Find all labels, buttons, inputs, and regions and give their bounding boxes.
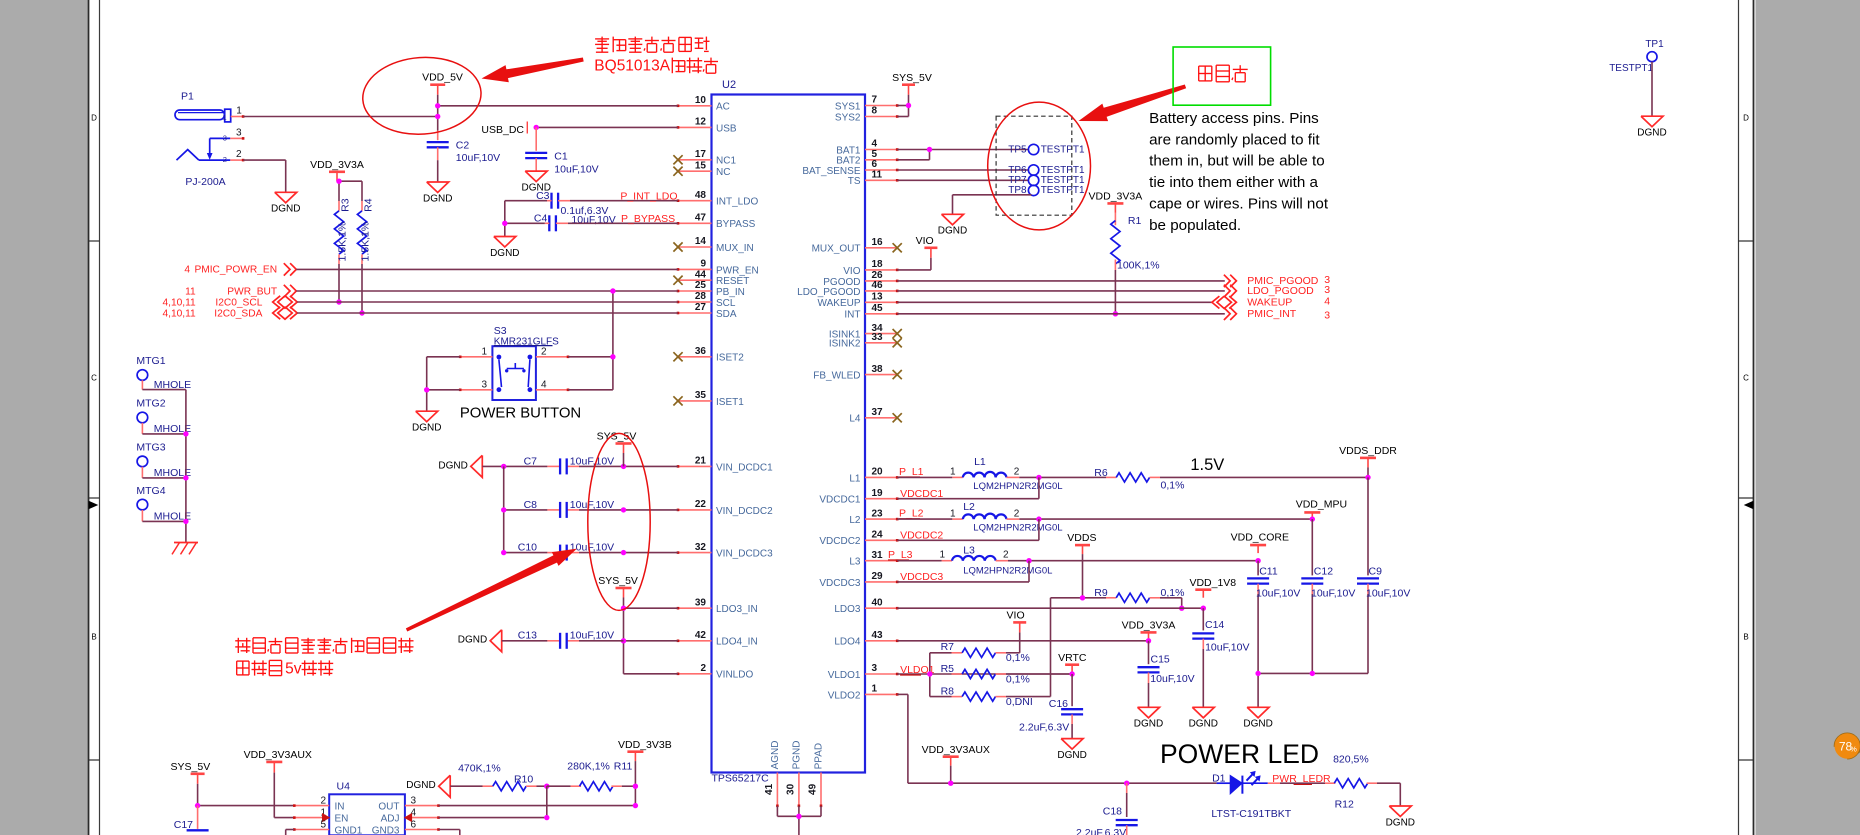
svg-text:12: 12 xyxy=(695,117,707,128)
svg-text:C1: C1 xyxy=(554,150,568,162)
ground DGND at cap bus xyxy=(1243,707,1272,729)
U4 pin 5 GND1 xyxy=(293,820,363,835)
ground DGND at C15 xyxy=(1134,707,1163,729)
U2 pin 32 VIN_DCDC3 xyxy=(677,542,773,560)
svg-text:45: 45 xyxy=(872,303,884,314)
svg-text:10uF,10V: 10uF,10V xyxy=(456,152,500,164)
svg-text:VINLDO: VINLDO xyxy=(716,670,753,681)
svg-text:DGND: DGND xyxy=(406,780,435,791)
svg-text:cape or wires. Pins will not: cape or wires. Pins will not xyxy=(1149,196,1329,213)
svg-text:MUX_OUT: MUX_OUT xyxy=(812,244,861,255)
wire TP8 to ground xyxy=(953,195,1032,215)
svg-text:ISET2: ISET2 xyxy=(716,353,744,364)
annotation green box xyxy=(1173,47,1271,105)
capacitor C11 xyxy=(1247,561,1300,674)
P1 pin 2 stub xyxy=(230,149,244,161)
svg-text:Battery access pins. Pins: Battery access pins. Pins xyxy=(1149,110,1319,127)
wire R7 R5 R8 left leg xyxy=(930,653,952,697)
U2 pin 42 LDO4_IN xyxy=(677,630,758,648)
U2 pin 39 LDO3_IN xyxy=(677,597,758,615)
net label VDCDC3 xyxy=(900,571,943,583)
resistor R9 xyxy=(1094,587,1184,602)
svg-text:1: 1 xyxy=(950,467,956,478)
U2 pin 2 VINLDO xyxy=(677,663,754,681)
svg-text:10uF,10V: 10uF,10V xyxy=(570,499,614,511)
svg-text:I2C0_SDA: I2C0_SDA xyxy=(214,309,262,320)
power VIO at MUX xyxy=(916,235,938,258)
U2 pin 14 MUX_IN xyxy=(673,236,753,254)
net label P_INT_LDO xyxy=(620,191,677,203)
U2 pin 18 VIO xyxy=(843,259,898,277)
svg-text:NC1: NC1 xyxy=(716,156,736,167)
svg-text:820,5%: 820,5% xyxy=(1333,754,1369,766)
junction VDD_CORE xyxy=(1255,558,1260,563)
svg-text:49: 49 xyxy=(808,783,819,795)
svg-text:TESTPT1: TESTPT1 xyxy=(1041,145,1085,156)
svg-text:10uF,10V: 10uF,10V xyxy=(570,542,614,554)
junction L1 out xyxy=(1036,475,1041,480)
net label P_L2 xyxy=(899,508,924,520)
test point TP1 xyxy=(1609,39,1664,74)
svg-text:20: 20 xyxy=(872,467,884,478)
svg-text:2: 2 xyxy=(541,346,547,357)
inductor L2 xyxy=(950,501,1063,534)
zoom badge 78 percent xyxy=(1835,733,1860,758)
switch S3 KMR231GLFS xyxy=(492,325,559,400)
svg-text:17: 17 xyxy=(695,149,707,160)
svg-text:%: % xyxy=(1850,745,1857,754)
svg-text:0,1%: 0,1% xyxy=(1161,480,1185,492)
junction C7 left xyxy=(501,464,506,469)
svg-text:P_L3: P_L3 xyxy=(888,549,913,561)
svg-text:SYS2: SYS2 xyxy=(835,112,861,123)
svg-text:VDCDC3: VDCDC3 xyxy=(900,571,943,583)
svg-text:DGND: DGND xyxy=(1057,750,1086,761)
svg-text:TP1: TP1 xyxy=(1645,39,1664,50)
svg-text:SYS_5V: SYS_5V xyxy=(597,431,637,443)
wire P1 to VDD_5V xyxy=(243,116,438,118)
wire SYS_5V cap column xyxy=(623,453,625,466)
svg-text:POWER LED: POWER LED xyxy=(1160,739,1319,769)
svg-text:R4: R4 xyxy=(363,198,375,212)
svg-text:R11: R11 xyxy=(614,761,633,773)
svg-text:DGND: DGND xyxy=(938,226,967,237)
wire R9 net xyxy=(1051,598,1182,608)
svg-text:280K,1%: 280K,1% xyxy=(567,761,610,773)
wire C10 row xyxy=(504,552,678,554)
junction L3 out xyxy=(1026,558,1031,563)
wire C2 to ground xyxy=(437,147,439,182)
sheet center markers xyxy=(89,502,1753,509)
svg-text:DGND: DGND xyxy=(490,248,519,259)
svg-text:PJ-200A: PJ-200A xyxy=(185,176,225,188)
svg-text:13: 13 xyxy=(872,292,884,303)
junction C4 ground xyxy=(502,221,507,226)
capacitor C2 xyxy=(427,140,500,165)
svg-text:11: 11 xyxy=(872,170,883,181)
power SYS_5V at U4 xyxy=(171,761,211,784)
junction S3 ground leg xyxy=(424,387,429,392)
U2 pin 24 VDCDC2 xyxy=(819,530,898,548)
wire C7 row xyxy=(482,465,678,467)
svg-text:2.2uF,6.3V: 2.2uF,6.3V xyxy=(1019,721,1069,733)
wire INT_LDO net xyxy=(505,200,678,202)
svg-text:3: 3 xyxy=(223,134,227,143)
svg-text:VIN_DCDC2: VIN_DCDC2 xyxy=(716,506,773,517)
svg-text:L1: L1 xyxy=(849,473,861,484)
U2 pin 13 WAKEUP xyxy=(818,292,899,310)
svg-text:30: 30 xyxy=(785,783,796,795)
svg-text:SYS_5V: SYS_5V xyxy=(892,72,932,84)
U2 pin 27 SDA xyxy=(677,302,737,320)
svg-text:1: 1 xyxy=(236,106,242,117)
junction OUT VDD_3V3B xyxy=(633,803,638,808)
svg-text:SYS_5V: SYS_5V xyxy=(598,575,638,587)
svg-text:4: 4 xyxy=(1324,296,1330,308)
junction MTG4 xyxy=(183,519,188,524)
mounting hole MTG4 xyxy=(136,485,191,523)
svg-text:MTG4: MTG4 xyxy=(136,485,165,497)
svg-text:LQM2HPN2R2MG0L: LQM2HPN2R2MG0L xyxy=(973,481,1062,492)
svg-text:23: 23 xyxy=(872,508,884,519)
offpage LDO_PGOOD xyxy=(1224,284,1330,297)
wire LDO3 net xyxy=(897,607,1203,609)
svg-text:R5: R5 xyxy=(941,663,955,675)
annotation ellipse battery xyxy=(988,102,1091,230)
svg-text:0,1%: 0,1% xyxy=(1006,652,1030,664)
junction VDDS_DDR xyxy=(1365,475,1370,480)
resistor R6 xyxy=(1094,467,1184,492)
svg-text:U2: U2 xyxy=(722,79,736,91)
mounting hole MTG2 xyxy=(136,398,191,435)
wire U4 GND1 leg xyxy=(286,830,295,835)
svg-text:PPAD: PPAD xyxy=(814,743,825,770)
wire L1 output xyxy=(897,476,1094,478)
wire R7 to VIO xyxy=(1006,632,1020,652)
capacitor C15 xyxy=(1138,641,1195,708)
capacitor C7 xyxy=(524,455,615,474)
svg-text:R7: R7 xyxy=(941,641,955,653)
junction MTG2 xyxy=(183,431,188,436)
junction R10 R11 xyxy=(544,784,549,789)
junction R11 VDD_3V3B xyxy=(633,784,638,789)
junction VDD_MPU xyxy=(1310,516,1315,521)
wire BAT1 to TP5 xyxy=(897,149,1028,151)
junction VDD_1V8 LDO3 xyxy=(1201,606,1206,611)
svg-text:AGND: AGND xyxy=(770,740,781,769)
power SYS_5V caps top xyxy=(597,431,637,453)
ground DGND at P1 xyxy=(271,192,300,214)
svg-text:21: 21 xyxy=(695,456,707,467)
junction PGND bus xyxy=(796,814,801,819)
annotation arrow to VDD_5V xyxy=(483,58,583,82)
power VDD_CORE xyxy=(1231,532,1289,553)
ground DGND at C3 C4 xyxy=(490,237,519,259)
ground DGND at C14 xyxy=(1189,707,1218,729)
wire R12 to ground xyxy=(1377,783,1400,806)
wire PMIC_POWR_EN net xyxy=(296,268,678,270)
S3 pin 4 xyxy=(536,379,569,391)
wire S3 left leg xyxy=(427,357,461,411)
svg-text:VIO: VIO xyxy=(1007,610,1025,622)
svg-text:P_L1: P_L1 xyxy=(899,466,924,478)
svg-text:5v: 5v xyxy=(285,660,302,677)
capacitor C16 xyxy=(1019,674,1083,739)
svg-text:LQM2HPN2R2MG0L: LQM2HPN2R2MG0L xyxy=(973,523,1062,534)
wire VLDO2 down xyxy=(897,694,908,783)
svg-text:TESTPT1: TESTPT1 xyxy=(1041,185,1085,196)
U2 pin 15 NC xyxy=(673,160,730,178)
svg-text:WAKEUP: WAKEUP xyxy=(1247,296,1292,308)
svg-text:10uF,10V: 10uF,10V xyxy=(571,214,615,226)
U2 pin 9 PWR_EN xyxy=(677,259,759,277)
ground DGND left at C13 xyxy=(458,630,502,652)
annotation chinese jiedianchi xyxy=(1199,65,1248,82)
capacitor C18 xyxy=(1076,783,1138,835)
svg-text:VDD_3V3A: VDD_3V3A xyxy=(310,159,364,171)
svg-text:38: 38 xyxy=(872,364,884,375)
svg-text:3: 3 xyxy=(236,127,242,138)
ground earth at MTG xyxy=(172,543,198,555)
U2 pin 5 BAT2 xyxy=(836,149,898,167)
svg-text:DGND: DGND xyxy=(412,423,441,434)
junction VDDS R9 xyxy=(1080,595,1085,600)
svg-text:VDCDC3: VDCDC3 xyxy=(819,578,861,589)
junction VDD_3V3A LDO4 xyxy=(1146,638,1151,643)
wire VIO to pin18 xyxy=(897,258,931,270)
svg-text:L2: L2 xyxy=(963,501,975,513)
U4 pin 6 GND3 xyxy=(372,820,440,835)
svg-text:SCL: SCL xyxy=(716,298,736,309)
wire VDDS stem xyxy=(1082,554,1084,598)
label 1.5V xyxy=(1190,456,1224,474)
svg-text:VIN_DCDC3: VIN_DCDC3 xyxy=(716,549,773,560)
svg-text:INT_LDO: INT_LDO xyxy=(716,197,758,208)
ground DGND at R12 xyxy=(1386,806,1415,828)
svg-text:10uF,10V: 10uF,10V xyxy=(1256,587,1300,599)
svg-text:L3: L3 xyxy=(963,544,975,556)
wire U4 OUT net xyxy=(439,805,636,807)
svg-text:IN: IN xyxy=(335,802,345,813)
svg-text:14: 14 xyxy=(695,236,707,247)
wire VDD_3V3A to R3 R4 xyxy=(337,181,362,201)
svg-text:4: 4 xyxy=(541,379,547,390)
junction VDD_3V3AUX rail xyxy=(948,781,953,786)
svg-text:D: D xyxy=(91,114,97,123)
ground DGND left at R10 xyxy=(406,775,450,797)
U2 pin 48 INT_LDO xyxy=(677,190,759,208)
U4 pin 1 EN xyxy=(293,808,348,825)
svg-text:3: 3 xyxy=(411,796,417,807)
svg-text:42: 42 xyxy=(695,630,707,641)
wire LDO4 net xyxy=(897,640,1148,642)
svg-text:1: 1 xyxy=(223,113,227,122)
svg-text:I2C0_SCL: I2C0_SCL xyxy=(215,298,262,309)
U2 pin 6 BAT_SENSE xyxy=(802,159,898,177)
wire R1 to INT xyxy=(1114,270,1116,314)
value labels C3 C4 xyxy=(561,205,616,226)
wire C13 row xyxy=(502,640,624,642)
power VDD_5V xyxy=(422,71,463,94)
capacitor C10 xyxy=(518,542,614,561)
capacitor C3 xyxy=(536,190,558,209)
wire L2 output xyxy=(897,518,1312,520)
resistor R7 xyxy=(941,641,1030,664)
P1 pin 3 stub xyxy=(230,127,244,139)
net label PWR_LEDR xyxy=(1272,773,1331,785)
annotation arrow to C10 xyxy=(407,549,576,631)
capacitor C17 xyxy=(174,819,209,835)
annotation chinese line1 xyxy=(595,37,709,53)
ground DGND at TP1 xyxy=(1637,116,1666,138)
svg-text:D: D xyxy=(1743,114,1749,123)
svg-text:3: 3 xyxy=(481,379,487,390)
wire C1 to ground xyxy=(535,158,537,171)
junction VRTC VLDO1 xyxy=(1069,671,1074,676)
ground DGND at C2 xyxy=(423,182,452,204)
svg-text:PMIC_INT: PMIC_INT xyxy=(1247,308,1297,320)
svg-text:C11: C11 xyxy=(1259,566,1278,578)
U2 pin 22 VIN_DCDC2 xyxy=(677,499,773,517)
junction C7 right xyxy=(621,464,626,469)
svg-text:47: 47 xyxy=(695,213,707,224)
annotation arrow battery xyxy=(1080,85,1186,121)
wire power led rail xyxy=(908,782,1217,784)
annotation chinese line4 xyxy=(237,660,334,677)
annotation ellipse SYS_5V xyxy=(588,433,650,610)
svg-text:C16: C16 xyxy=(1049,698,1068,710)
wire PWR_BUT net xyxy=(296,290,678,292)
wire L3 output xyxy=(897,560,1258,562)
svg-text:VIO: VIO xyxy=(916,235,934,247)
svg-text:2: 2 xyxy=(1014,508,1020,519)
svg-text:31: 31 xyxy=(872,550,884,561)
wire MTG trunk xyxy=(185,390,187,543)
wire R3 to SCL xyxy=(338,264,340,302)
svg-text:1.5V: 1.5V xyxy=(1190,456,1224,474)
svg-text:PWR_EN: PWR_EN xyxy=(716,265,759,276)
svg-text:VDCDC2: VDCDC2 xyxy=(819,536,861,547)
svg-text:2: 2 xyxy=(223,155,227,164)
svg-text:C: C xyxy=(1743,374,1749,383)
svg-text:36: 36 xyxy=(695,346,707,357)
U2 pin 36 ISET2 xyxy=(673,346,744,364)
svg-text:1.5K,1%: 1.5K,1% xyxy=(337,222,349,262)
wire VDCDC1 feedback xyxy=(897,477,1039,498)
svg-text:VLDO1: VLDO1 xyxy=(828,670,861,681)
junction VLDO1 divider xyxy=(927,671,932,676)
mounting hole MTG1 xyxy=(136,355,191,391)
wire VDDS_DDR stem xyxy=(1367,467,1369,477)
svg-text:0,1%: 0,1% xyxy=(1006,674,1030,686)
svg-text:tie into them either with a: tie into them either with a xyxy=(1149,174,1318,191)
wire VLDO1 net xyxy=(897,673,1072,675)
junction VDD_5V AC xyxy=(435,103,440,108)
svg-text:10uF,10V: 10uF,10V xyxy=(570,455,614,467)
mounting hole MTG3 xyxy=(136,442,191,480)
svg-text:VDDS: VDDS xyxy=(1067,532,1096,544)
wire R4 to SDA xyxy=(361,264,363,313)
U2 pin 23 L2 xyxy=(849,508,898,526)
svg-text:7: 7 xyxy=(872,95,878,106)
svg-text:C14: C14 xyxy=(1205,619,1224,631)
svg-text:C15: C15 xyxy=(1151,653,1170,665)
svg-text:PMIC_POWR_EN: PMIC_POWR_EN xyxy=(194,265,277,276)
U2 pin 37 L4 xyxy=(849,407,901,425)
svg-text:VDDS_DDR: VDDS_DDR xyxy=(1339,445,1397,457)
ground DGND left at C7 xyxy=(438,455,482,477)
svg-text:40: 40 xyxy=(872,597,884,608)
wire R10 net xyxy=(450,785,482,787)
net label VLDO1 xyxy=(900,664,935,676)
resistor R4 xyxy=(357,198,374,264)
U2 pin 11 TS xyxy=(848,170,899,188)
wire cap ground bus xyxy=(1258,673,1368,707)
wire BYPASS net xyxy=(505,222,678,224)
svg-text:SYS_5V: SYS_5V xyxy=(171,761,211,773)
svg-text:2: 2 xyxy=(700,663,706,674)
junction C12 bus xyxy=(1310,671,1315,676)
U2 pin 28 SCL xyxy=(677,291,736,309)
svg-text:15: 15 xyxy=(695,160,707,171)
svg-text:VDCDC1: VDCDC1 xyxy=(819,495,861,506)
wire INT net xyxy=(897,313,1225,315)
wire R8 to R9 row xyxy=(1006,598,1051,697)
node VDD_5V to AC wire xyxy=(438,105,678,107)
svg-text:3: 3 xyxy=(1324,284,1330,296)
wire VDD_3V3B column xyxy=(634,761,636,806)
svg-text:4,10,11: 4,10,11 xyxy=(162,298,196,309)
inductor L3 xyxy=(939,544,1052,576)
svg-text:C13: C13 xyxy=(518,630,537,642)
power VDD_3V3A at R1 xyxy=(1089,191,1143,213)
svg-text:28: 28 xyxy=(695,291,707,302)
svg-text:R8: R8 xyxy=(941,685,955,697)
junction ADJ xyxy=(544,815,549,820)
right gray panel xyxy=(1756,0,1860,835)
svg-text:GND3: GND3 xyxy=(372,825,400,835)
svg-text:R10: R10 xyxy=(514,773,533,785)
U2 pin 25 PB_IN xyxy=(677,280,745,298)
svg-text:10: 10 xyxy=(695,95,707,106)
svg-text:33: 33 xyxy=(872,332,884,343)
wire R6 to VDDS_DDR xyxy=(1094,476,1368,478)
svg-text:WAKEUP: WAKEUP xyxy=(818,298,861,309)
U2 pin 30 PGND xyxy=(785,740,802,807)
U2 pin 3 VLDO1 xyxy=(828,663,899,681)
U2 pin 34 ISINK1 xyxy=(829,323,902,341)
svg-text:10uF,10V: 10uF,10V xyxy=(1150,673,1194,685)
wire R11 to VDD_3V3B xyxy=(622,785,636,787)
svg-text:22: 22 xyxy=(695,499,707,510)
svg-text:2: 2 xyxy=(1003,550,1009,561)
svg-text:C7: C7 xyxy=(524,455,538,467)
svg-text:AC: AC xyxy=(716,102,730,113)
svg-text:EN: EN xyxy=(335,814,349,825)
annotation battery text xyxy=(1149,110,1329,234)
svg-text:be populated.: be populated. xyxy=(1149,217,1241,234)
U2 pin 21 VIN_DCDC1 xyxy=(677,456,773,474)
power VRTC xyxy=(1058,652,1087,672)
svg-text:VDD_3V3AUX: VDD_3V3AUX xyxy=(244,749,312,761)
wire R10 to junction xyxy=(537,785,547,787)
wire I2C0_SDA net xyxy=(297,312,678,314)
junction USB_DC xyxy=(534,125,539,130)
capacitor C13 xyxy=(518,630,614,649)
svg-text:0,DNI: 0,DNI xyxy=(1006,696,1033,708)
svg-text:POWER BUTTON: POWER BUTTON xyxy=(460,405,581,421)
net label USB_DC xyxy=(481,122,527,136)
